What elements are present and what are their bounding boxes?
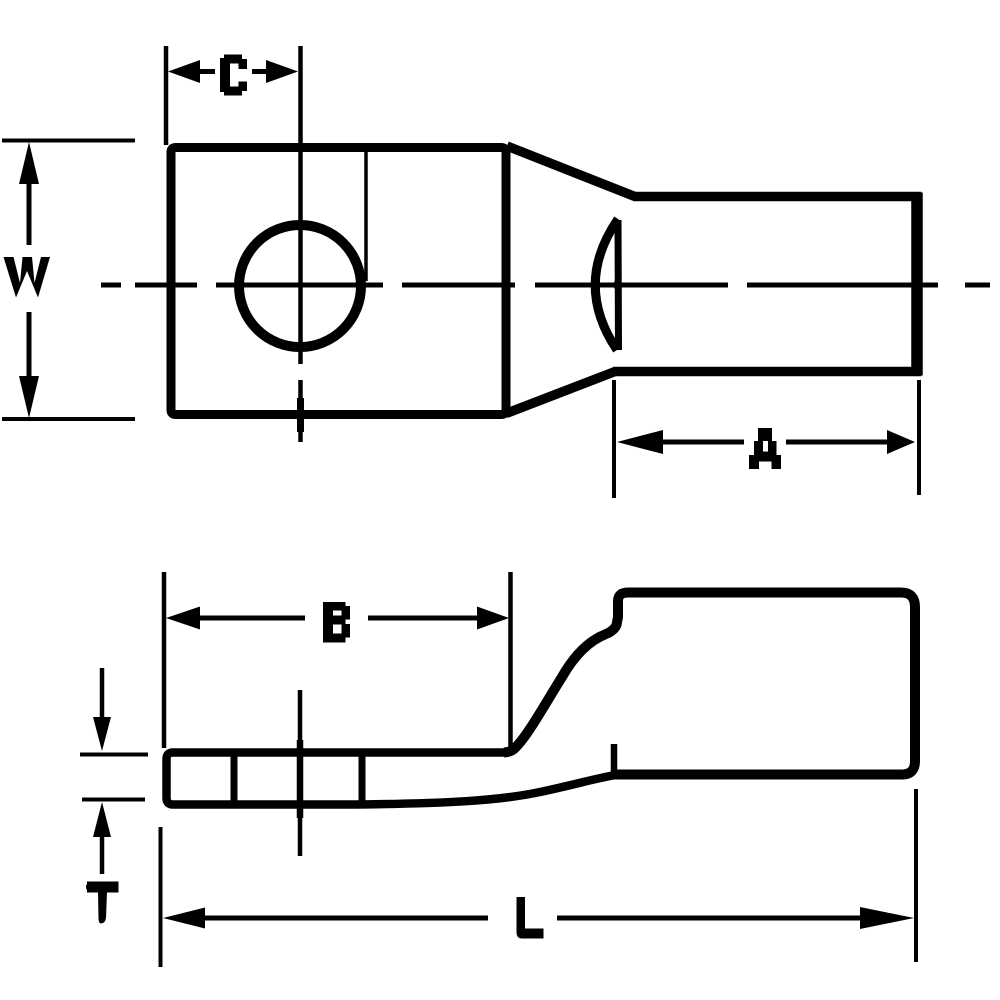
barrel lip tick: [611, 744, 618, 773]
T top extension line: [80, 753, 148, 757]
L dimension arrow line: [200, 916, 863, 921]
letter C: [220, 55, 247, 96]
letter A: [749, 428, 781, 469]
C left arrowhead: [168, 60, 200, 83]
T bottom arrowhead: [93, 802, 111, 837]
letter L: [517, 897, 544, 939]
centerline crossing blobs: [297, 740, 304, 818]
horizontal centerline (dash-dot): [101, 283, 990, 288]
T bottom extension line: [82, 798, 145, 802]
L left extension line: [159, 827, 163, 967]
W bottom extension line: [2, 417, 135, 421]
T bottom arrow: [100, 834, 105, 874]
A left arrowhead: [617, 430, 663, 454]
centerline crossing blobs: [166, 277, 922, 293]
barrel outline (top view): [613, 197, 917, 372]
hole edge divider right: [359, 753, 366, 804]
A dimension arrow line: [658, 440, 890, 445]
letter B: [323, 602, 350, 643]
W top extension line: [2, 139, 135, 143]
T top arrow: [100, 668, 105, 722]
W dimension arrows: [27, 180, 32, 380]
hole edge divider left: [231, 753, 238, 804]
L right arrowhead: [860, 907, 914, 929]
B left extension line: [162, 572, 167, 748]
W down arrowhead: [19, 376, 39, 418]
barrel side outline with step: [504, 593, 915, 775]
B dimension arrow line: [196, 616, 480, 621]
tongue side outline: [167, 753, 619, 805]
B right extension line: [508, 572, 513, 748]
bolt hole: [239, 225, 361, 347]
hole vertical centerline: [298, 46, 303, 442]
T top arrowhead: [93, 717, 111, 751]
letter T: [86, 882, 119, 924]
barrel right edge (top view): [911, 193, 923, 376]
taper top line: [507, 146, 636, 197]
side view hole centerline: [298, 690, 303, 856]
extension line right of hole: [364, 150, 368, 281]
C dimension arrow line: [196, 69, 270, 74]
B right arrowhead: [477, 607, 509, 630]
C right arrowhead: [266, 60, 298, 83]
tongue outline (top view): [171, 148, 506, 415]
B left arrowhead: [166, 607, 200, 630]
flare lens chord: [615, 220, 623, 350]
A right extension line: [917, 380, 921, 495]
L left arrowhead: [163, 908, 205, 929]
W up arrowhead: [19, 142, 39, 184]
L right extension line: [914, 789, 918, 962]
flare lens arc: [595, 219, 618, 350]
C dimension extension line: [164, 46, 169, 145]
letter W: [4, 257, 51, 298]
A right arrowhead: [887, 430, 915, 454]
A left extension line: [612, 380, 616, 498]
taper bottom line: [506, 372, 615, 414]
crossing blob at tongue bottom edge: [297, 398, 304, 432]
